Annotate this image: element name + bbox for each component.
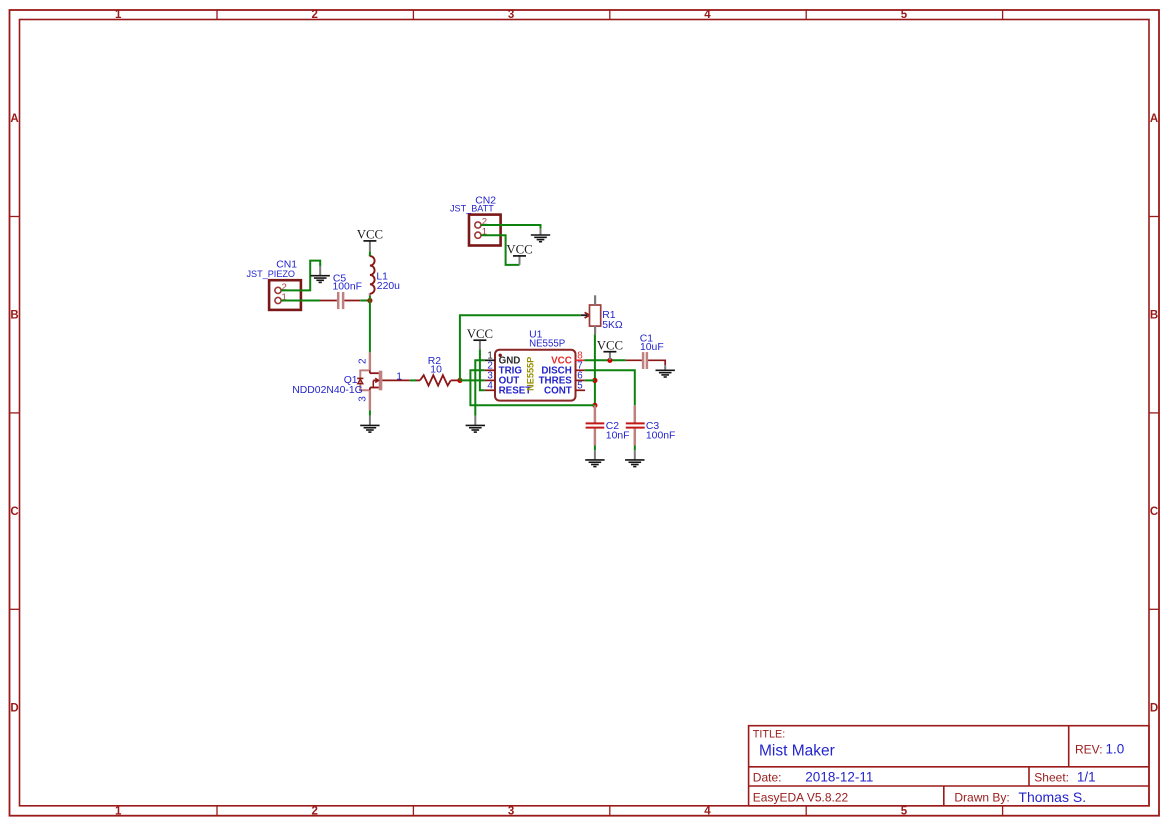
svg-text:100nF: 100nF	[333, 281, 362, 292]
frame column ticks bottom	[217, 806, 1003, 816]
wire CN2 pin2 to ground	[481, 225, 541, 229]
wire U1 pin6 to THRES node	[585, 379, 595, 381]
svg-text:220u: 220u	[377, 281, 400, 292]
svg-text:10uF: 10uF	[640, 342, 664, 353]
svg-text:1/1: 1/1	[1077, 769, 1096, 784]
svg-text:100nF: 100nF	[646, 430, 675, 441]
svg-text:4: 4	[704, 806, 711, 818]
ground stem near CN1	[319, 266, 321, 275]
ground stem under C3	[634, 450, 636, 459]
wire gate to R2	[410, 379, 416, 381]
svg-text:TITLE:: TITLE:	[753, 728, 785, 740]
svg-text:2: 2	[311, 9, 317, 21]
svg-text:4: 4	[487, 380, 493, 391]
VCC stem below CN2	[519, 256, 521, 265]
R1 wiper arrow	[585, 312, 590, 318]
wire node up to L1	[369, 295, 371, 301]
U1 pin 4 RESET lead	[485, 389, 495, 391]
wire C2 to ground	[594, 446, 596, 451]
ground symbol under U1	[466, 425, 485, 432]
svg-text:3: 3	[508, 806, 514, 818]
wire CN1 pin1 to C5	[281, 300, 320, 302]
frame row ticks right	[1149, 217, 1159, 610]
ground stem under Q1	[369, 416, 371, 425]
IC U1 NE555P body	[495, 350, 576, 401]
ground symbol under Q1	[360, 425, 379, 432]
wire U1 GND to ground	[475, 360, 485, 415]
VCC stem left of U1	[479, 341, 481, 349]
svg-text:5KΩ: 5KΩ	[602, 320, 623, 331]
svg-text:C: C	[10, 506, 18, 518]
U1 pin 3 OUT lead	[485, 379, 495, 381]
junction node VCC/C1	[607, 358, 612, 363]
svg-text:2: 2	[357, 358, 368, 364]
svg-text:5: 5	[577, 380, 583, 391]
wire node down to Q1 drain	[369, 301, 371, 353]
capacitor C1	[626, 352, 666, 369]
R1 wiper lead	[581, 314, 588, 316]
wire U1 pin7 DISCH to C3	[585, 370, 635, 405]
wire TRIG loop to C2 node	[470, 370, 595, 405]
wire R2 node up to R1 wiper	[460, 315, 581, 380]
junction node THRES	[592, 378, 597, 383]
U1 pin 7 DISCH lead	[576, 369, 585, 371]
ground stem under U1	[474, 416, 476, 425]
frame row ticks left	[10, 217, 20, 610]
svg-text:4: 4	[704, 9, 711, 21]
ground stem under C2	[594, 450, 596, 459]
svg-text:D: D	[10, 702, 18, 714]
wire C5 to node	[360, 300, 370, 302]
svg-text:NDD02N40-1G: NDD02N40-1G	[292, 385, 362, 396]
ground stem right of C1	[664, 365, 666, 370]
inductor L1	[370, 254, 375, 295]
svg-text:2: 2	[311, 806, 317, 818]
junction node at R2/OUT	[457, 378, 462, 383]
svg-text:NE555P: NE555P	[529, 339, 565, 350]
U1 pin 6 THRES lead	[576, 379, 585, 381]
junction node TRIG/C2	[592, 403, 597, 408]
svg-text:3: 3	[508, 9, 514, 21]
frame column numbers bottom	[115, 806, 908, 818]
svg-text:B: B	[1150, 310, 1158, 322]
svg-text:A: A	[10, 113, 18, 125]
svg-text:JST_BATT: JST_BATT	[450, 204, 494, 214]
svg-text:5: 5	[901, 9, 908, 21]
wire C3 to ground	[634, 446, 636, 451]
transistor Q1 NDD02N40-1G	[357, 352, 382, 410]
wire R1 bottom to THRES node	[594, 334, 596, 405]
svg-text:REV:: REV:	[1075, 743, 1103, 757]
svg-text:NE555P: NE555P	[526, 357, 536, 391]
svg-text:Date:: Date:	[753, 771, 782, 785]
wire R2 node to U1 OUT	[460, 379, 485, 381]
wire U1 pin8 to C1	[584, 359, 625, 361]
U1 pin 2 TRIG lead	[485, 369, 495, 371]
svg-text:EasyEDA V5.8.22: EasyEDA V5.8.22	[753, 791, 849, 805]
junction node at C5/L1/Q1	[367, 298, 372, 303]
frame column ticks top	[217, 10, 1003, 20]
ground symbol under C2	[585, 460, 604, 467]
wire L1 to VCC	[369, 251, 371, 256]
wire CN2 pin1 to VCC	[481, 235, 520, 265]
svg-text:Q1: Q1	[344, 375, 358, 386]
svg-text:2018-12-11: 2018-12-11	[805, 769, 873, 784]
svg-text:A: A	[1150, 113, 1158, 125]
ground symbol right of C1	[656, 370, 675, 377]
svg-text:10: 10	[430, 365, 442, 376]
svg-text:C: C	[1150, 506, 1158, 518]
svg-text:1.0: 1.0	[1106, 742, 1125, 757]
title block outline	[749, 726, 1149, 806]
svg-text:Mist Maker: Mist Maker	[759, 743, 835, 760]
ground symbol right of CN2	[531, 235, 550, 242]
svg-text:5: 5	[901, 806, 908, 818]
wire VCC to RESET	[480, 349, 485, 390]
frame row letters left	[10, 113, 18, 714]
U1 pin 8 VCC lead	[576, 359, 585, 361]
capacitor C2	[586, 405, 605, 445]
U1 pin 5 CONT lead	[576, 389, 586, 391]
U1 pin 1 GND lead	[485, 359, 495, 361]
frame row letters right	[1150, 113, 1158, 714]
frame column numbers top	[115, 9, 908, 21]
Q1 gate lead	[382, 379, 410, 381]
power flag VCC above L1	[357, 228, 383, 242]
ground symbol near CN1	[311, 276, 330, 283]
power flag VCC below CN2	[506, 243, 532, 257]
svg-text:CONT: CONT	[544, 386, 572, 397]
svg-text:10nF: 10nF	[606, 430, 630, 441]
capacitor C5	[320, 292, 360, 309]
svg-text:B: B	[10, 310, 18, 322]
svg-text:Thomas S.: Thomas S.	[1018, 789, 1086, 805]
power flag VCC left of U1	[467, 327, 493, 341]
connector CN1 JST_PIEZO body	[269, 280, 301, 310]
svg-text:Drawn By:: Drawn By:	[954, 791, 1009, 805]
potentiometer R1 body	[590, 295, 601, 334]
ground symbol under C3	[625, 460, 644, 467]
wire Q1 source to ground	[369, 410, 371, 415]
svg-text:JST_PIEZO: JST_PIEZO	[247, 269, 296, 279]
capacitor C3	[626, 405, 645, 445]
svg-text:Sheet:: Sheet:	[1034, 771, 1069, 785]
svg-text:3: 3	[357, 396, 368, 402]
resistor R2	[416, 375, 460, 385]
VCC stem above L1	[369, 241, 371, 251]
svg-text:D: D	[1150, 702, 1158, 714]
VCC stem above pin8 wire	[609, 352, 611, 360]
power flag VCC above C1 node	[597, 338, 623, 352]
ground stem right of CN2	[540, 229, 542, 235]
svg-text:1: 1	[115, 806, 122, 818]
svg-text:1: 1	[115, 9, 122, 21]
connector CN2 JST_BATT body	[469, 215, 501, 246]
wire CN1 pin2 to ground	[281, 261, 320, 291]
